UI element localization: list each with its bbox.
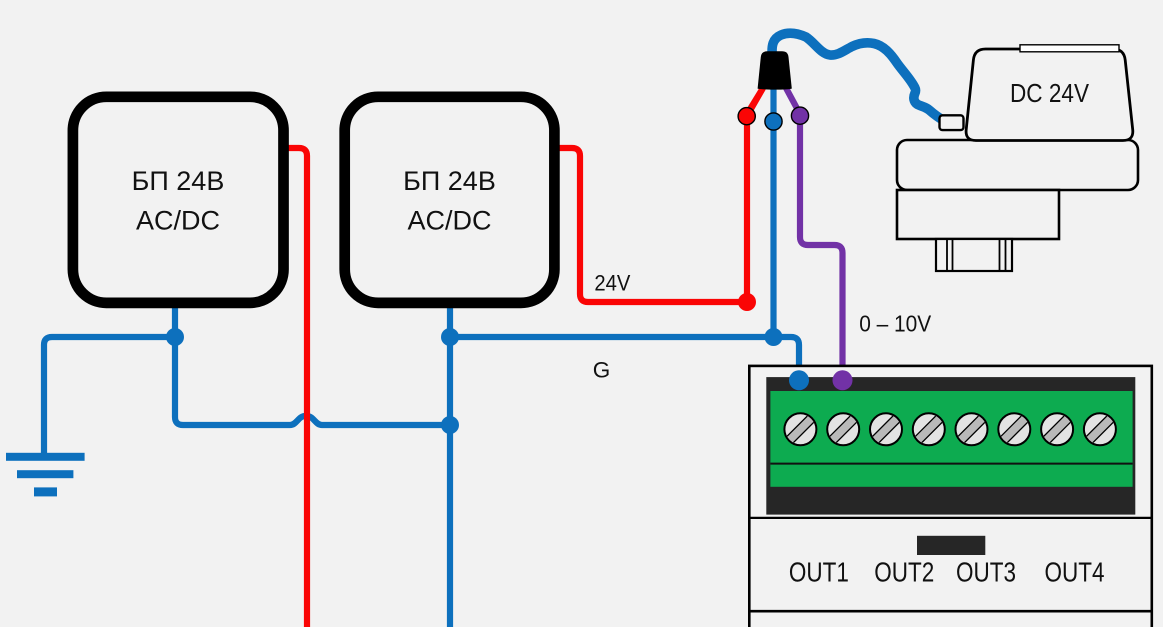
wire: blue from PSU2 bottom down to bottom edge [447, 302, 453, 627]
terminal screw 5 [954, 412, 989, 447]
terminal screw 7 [1040, 412, 1075, 447]
terminal screw 6 [997, 412, 1032, 447]
actuator: top slider strip [1020, 45, 1119, 52]
svg-text:БП 24В: БП 24В [132, 166, 225, 196]
svg-text:БП 24В: БП 24В [403, 166, 496, 196]
terminal dot: red (24V) [738, 108, 755, 125]
controller: outer case [749, 366, 1152, 627]
terminal screw 3 [869, 412, 904, 447]
wire: red riser from 24V junction up to red terminal dot and plug [747, 88, 763, 302]
controller: green strip divider line [770, 463, 1132, 465]
svg-text:0 – 10V: 0 – 10V [859, 311, 932, 337]
terminal screw 2 [826, 412, 861, 447]
controller: status window [917, 536, 985, 555]
svg-text:AC/DC: AC/DC [407, 206, 491, 236]
connector plug (black) [758, 51, 792, 89]
controller: dark terminal band [766, 377, 1135, 514]
power supply PSU2 box [345, 97, 555, 303]
actuator: cable entry nub [940, 115, 964, 130]
controller: case shelf line [749, 517, 1152, 519]
wire: blue from PSU1 junction down then right with hop over red wire to PSU2 riser [175, 337, 450, 425]
terminal dot: purple (0-10V) [791, 107, 808, 124]
junction: blue node on G line below plug [765, 328, 783, 346]
wire: purple 0-10V from purple dot to terminal block [800, 116, 843, 380]
wire: short blue lead from plug to blue dot [770, 88, 776, 120]
terminal screw 1 [783, 412, 818, 447]
wire: red output of PSU2 to 24V junction [553, 148, 747, 302]
controller: case divider line [749, 610, 1152, 613]
svg-text:DC 24V: DC 24V [1010, 80, 1089, 108]
svg-text:24V: 24V [594, 271, 630, 296]
controller: green terminal strip [770, 391, 1132, 487]
power supply PSU1 box [73, 97, 284, 303]
wire: blue from PSU1 junction left to earth [44, 337, 175, 453]
terminal screw 4 [911, 412, 946, 447]
svg-text:OUT2: OUT2 [874, 557, 934, 588]
svg-text:OUT3: OUT3 [956, 557, 1016, 588]
wire: blue riser from blue terminal dot down to G line [770, 121, 776, 337]
junction: blue node where left branch meets PSU2 riser [441, 416, 459, 434]
terminal entry dot: blue on OUT1 [789, 370, 809, 390]
junction: blue node below PSU2 on G line [441, 328, 459, 346]
actuator: middle body box [897, 140, 1138, 190]
svg-text:OUT4: OUT4 [1045, 557, 1105, 588]
actuator: lower body box [897, 190, 1059, 239]
wire: blue G line from PSU2 junction to terminal block input [450, 337, 799, 380]
wire: short purple lead from plug to purple dot [786, 88, 800, 114]
actuator: threaded stem [936, 239, 1012, 271]
wire: blue from PSU1 bottom to junction [172, 302, 178, 337]
terminal entry dot: purple on OUT2 [833, 370, 853, 390]
wire: red output of PSU1 down to bottom edge [282, 148, 307, 627]
svg-text:AC/DC: AC/DC [136, 206, 220, 236]
terminal dot: blue (G) [765, 113, 782, 130]
cable: blue squiggle from plug to actuator [772, 33, 944, 121]
actuator: top head box DC 24V [966, 49, 1133, 141]
svg-text:G: G [593, 358, 611, 383]
terminal screw 8 [1083, 412, 1118, 447]
ground symbol [6, 453, 85, 497]
svg-text:OUT1: OUT1 [789, 557, 849, 588]
junction: blue node below PSU1 [166, 328, 184, 346]
wire: short red lead from plug to red dot [747, 88, 763, 114]
junction: red 24V node [738, 293, 756, 311]
